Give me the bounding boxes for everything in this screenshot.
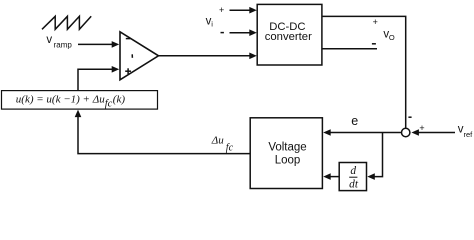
comparator center tick [131,54,133,58]
comparator U1 [120,32,159,80]
wire v_ramp to comparator minus input [78,43,112,45]
wire comparator output to DC-DC converter [159,55,251,57]
comparator minus sign [126,38,131,40]
svg-text:Voltage: Voltage [268,142,306,154]
svg-text:Loop: Loop [275,155,301,167]
wire error e to voltage loop [330,132,402,134]
svg-text:converter: converter [265,31,312,43]
label vO minus [372,43,376,45]
comparator plus sign [125,70,131,72]
wire equation box output to comparator plus input [78,69,112,90]
voltage loop box [250,118,322,189]
svg-text:O: O [389,33,395,42]
equation box [2,91,158,110]
wire v_i minus input [230,32,251,34]
d/dt box [339,163,366,191]
sawtooth ramp waveform [42,16,91,29]
svg-text:ramp: ramp [54,41,73,50]
svg-text:+: + [419,123,424,133]
wire vO minus output [322,48,377,50]
wire vO plus output to summing junction [322,16,406,128]
svg-text:Δu: Δu [211,135,224,147]
summing junction [402,128,410,136]
svg-text:+: + [219,5,224,15]
wire d/dt output to voltage loop [330,176,339,178]
svg-text:ref: ref [464,130,474,139]
wire v_ref input [418,132,455,134]
svg-text:+: + [373,17,378,27]
svg-text:fc: fc [226,143,234,154]
wire delta-u feedback to equation box [78,117,250,154]
label v_i minus [221,32,224,34]
svg-text:v: v [46,34,52,46]
wire branch to d/dt [374,133,383,177]
svg-text:dt: dt [349,178,359,190]
DC-DC converter box [257,4,322,65]
svg-text:e: e [351,114,358,128]
wire v_i plus input [230,9,251,11]
svg-text:d: d [350,165,356,177]
summing junction minus sign [408,116,411,118]
